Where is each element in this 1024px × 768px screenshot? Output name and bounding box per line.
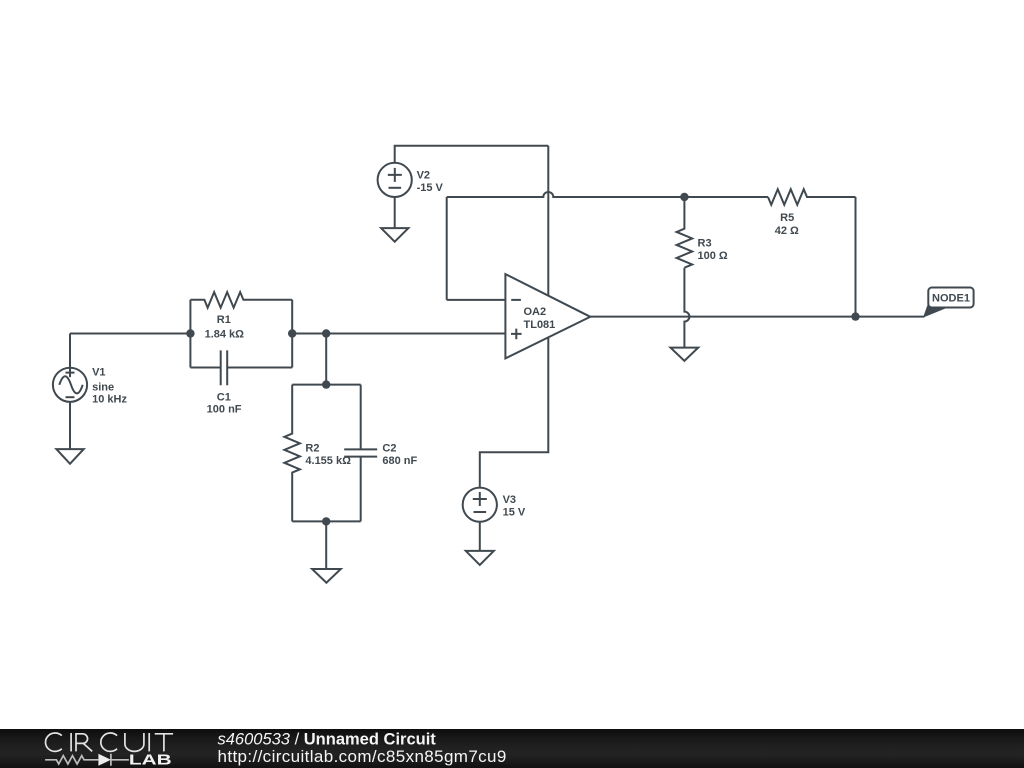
logo CIRCUIT bbox=[46, 733, 174, 751]
wire R5 right corner down bbox=[855, 197, 857, 317]
wire V2 top rail bbox=[395, 146, 549, 163]
node dot R1 right bbox=[288, 329, 296, 337]
svg-text:42 Ω: 42 Ω bbox=[775, 225, 799, 237]
wire V1 top to main line bbox=[69, 334, 71, 368]
svg-text:10 kHz: 10 kHz bbox=[92, 394, 127, 406]
svg-text:4.155 kΩ: 4.155 kΩ bbox=[305, 455, 351, 467]
node dot R1 left bbox=[186, 329, 194, 337]
capacitor C2 (right edge of parallel box) bbox=[360, 385, 362, 522]
wire feedback to R5 bbox=[684, 196, 768, 198]
svg-text:V1: V1 bbox=[92, 367, 105, 379]
svg-text:C1: C1 bbox=[217, 392, 231, 404]
svg-text:-15 V: -15 V bbox=[417, 182, 444, 194]
svg-text:sine: sine bbox=[92, 382, 114, 394]
voltage source V2 bbox=[378, 163, 412, 197]
wire op-amp V+ supply (top) bbox=[547, 146, 549, 296]
logo resistor and diode bbox=[45, 754, 129, 766]
ground below V2 bbox=[381, 228, 408, 242]
wire V3 bottom to ground bbox=[479, 522, 481, 551]
svg-text:http://circuitlab.com/c85xn85g: http://circuitlab.com/c85xn85gm7cu9 bbox=[218, 747, 507, 766]
resistor R1 (top edge of parallel box) bbox=[190, 292, 292, 308]
wire inverting input bbox=[447, 299, 506, 301]
wire op-amp output bbox=[590, 316, 924, 318]
op-amp OA2 triangle bbox=[505, 274, 590, 358]
resistor R3 bbox=[677, 197, 693, 268]
ground below R3 bbox=[671, 348, 699, 361]
svg-text:R1: R1 bbox=[217, 314, 231, 326]
node dot R2C2 bottom bbox=[322, 517, 330, 525]
svg-text:s4600533 / Unnamed Circuit: s4600533 / Unnamed Circuit bbox=[218, 730, 437, 748]
wire main line V1 to R1 left bbox=[70, 333, 190, 335]
node dot R3 top bbox=[680, 193, 688, 201]
wire R2C2 bottom to ground bbox=[325, 521, 327, 569]
wire feedback vertical bbox=[446, 197, 448, 300]
ground below R2C2 bbox=[312, 569, 341, 583]
svg-text:OA2: OA2 bbox=[524, 306, 547, 318]
op-amp minus sign bbox=[511, 299, 521, 301]
node A branch dot bbox=[322, 329, 330, 337]
op-amp plus sign bbox=[511, 329, 522, 340]
resistor R2 (left edge of parallel box) bbox=[284, 385, 300, 522]
resistor R5 bbox=[768, 189, 856, 205]
svg-text:R3: R3 bbox=[698, 238, 712, 250]
wire R3 bottom with hop over output bbox=[684, 268, 689, 348]
svg-text:LAB: LAB bbox=[129, 752, 172, 768]
svg-text:100 Ω: 100 Ω bbox=[698, 250, 728, 262]
wire R2C2 box bottom edge bbox=[292, 520, 361, 522]
wire R1 box right edge bbox=[291, 300, 293, 368]
capacitor C1 (bottom edge of parallel box) bbox=[190, 367, 292, 369]
voltage source V1 bbox=[53, 368, 87, 402]
wire R1 box left edge bbox=[189, 300, 191, 368]
svg-text:V2: V2 bbox=[417, 169, 430, 181]
svg-text:R5: R5 bbox=[780, 212, 794, 224]
svg-text:TL081: TL081 bbox=[524, 319, 556, 331]
wire op-amp V- supply (bottom) to V3 bbox=[480, 338, 549, 488]
svg-text:V3: V3 bbox=[503, 494, 516, 506]
wire main line R1 to op-amp bbox=[292, 333, 505, 335]
svg-text:1.84 kΩ: 1.84 kΩ bbox=[205, 328, 245, 340]
svg-text:NODE1: NODE1 bbox=[932, 293, 970, 305]
svg-text:15 V: 15 V bbox=[503, 506, 526, 518]
node dot R2C2 top bbox=[322, 380, 330, 388]
svg-text:100 nF: 100 nF bbox=[207, 404, 242, 416]
wire V1 bottom to ground bbox=[69, 402, 71, 449]
voltage source V3 bbox=[463, 488, 497, 522]
wire V2 bottom to ground bbox=[394, 197, 396, 228]
ground below V3 bbox=[466, 551, 494, 565]
node dot output R5 junction bbox=[851, 312, 859, 320]
wire feedback horizontal with hop over supply bbox=[447, 192, 685, 197]
ground below V1 bbox=[56, 449, 83, 464]
node flag NODE1 bbox=[923, 288, 974, 318]
svg-text:R2: R2 bbox=[305, 442, 319, 454]
wire branch down to R2C2 bbox=[325, 334, 327, 385]
wire R2C2 box top edge bbox=[292, 384, 361, 386]
svg-text:680 nF: 680 nF bbox=[382, 455, 417, 467]
svg-text:C2: C2 bbox=[382, 442, 396, 454]
